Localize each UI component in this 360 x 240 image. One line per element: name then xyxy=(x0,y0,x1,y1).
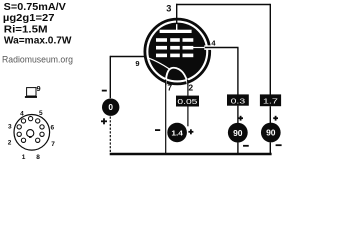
tube V1 inner electrode disc xyxy=(148,23,206,81)
battery Vf plus xyxy=(188,131,193,133)
svg-text:5: 5 xyxy=(39,110,43,117)
wire pin 4 horizontal xyxy=(205,47,239,49)
svg-text:4: 4 xyxy=(20,110,24,117)
wire top rail anode xyxy=(176,4,270,6)
wire anode column lower xyxy=(269,142,271,153)
battery Vg1 0 xyxy=(102,99,119,116)
socket pin left xyxy=(17,125,21,129)
pin 4 ring notch xyxy=(204,45,211,50)
socket pin lower right xyxy=(40,132,44,136)
wire g1 column lower dashed xyxy=(109,117,111,154)
meter Ig2 0.3 xyxy=(227,94,249,105)
wire anode column mid xyxy=(269,106,271,123)
anode bar xyxy=(160,30,192,33)
svg-text:0: 0 xyxy=(108,102,113,112)
socket pin upper right xyxy=(36,119,40,123)
svg-text:Wa=max.0.7W: Wa=max.0.7W xyxy=(4,36,72,47)
filament arch xyxy=(166,68,188,88)
svg-text:2: 2 xyxy=(8,140,12,147)
socket key symbol base xyxy=(25,96,37,98)
socket center hole xyxy=(27,130,34,137)
socket pin top center xyxy=(28,116,32,120)
svg-text:7: 7 xyxy=(167,82,172,92)
svg-text:90: 90 xyxy=(233,128,243,138)
wire pin3 drop xyxy=(176,4,178,25)
grid row g3 xyxy=(156,38,167,42)
tube V1 envelope ring xyxy=(145,19,210,84)
battery Vg1 plus xyxy=(101,120,107,122)
svg-text:0.05: 0.05 xyxy=(177,97,197,106)
battery Vg2 90 xyxy=(228,123,248,143)
socket pin bottom right xyxy=(36,138,40,142)
tube socket outline xyxy=(14,115,50,151)
wire pin 2 below meter xyxy=(187,106,189,126)
battery Vg2 minus xyxy=(243,145,249,147)
battery Va minus xyxy=(276,144,282,146)
filament right leg black xyxy=(186,80,189,86)
grid g1 connector to pin 9 xyxy=(149,58,170,69)
svg-text:µg2g1=27: µg2g1=27 xyxy=(3,13,55,24)
svg-text:8: 8 xyxy=(36,154,40,159)
socket key symbol square xyxy=(27,88,36,96)
wire pin 2 leg xyxy=(187,80,189,96)
meter If 0.05 xyxy=(176,96,199,107)
svg-text:Radiomuseum.org: Radiomuseum.org xyxy=(2,55,73,66)
socket pin lower left xyxy=(17,132,21,136)
grid row g2 xyxy=(156,46,167,50)
battery Vf 1.4 xyxy=(167,123,187,143)
svg-text:90: 90 xyxy=(266,128,276,138)
svg-text:6: 6 xyxy=(50,125,54,132)
svg-text:1.4: 1.4 xyxy=(171,128,183,137)
wire g2 column lower xyxy=(237,142,239,153)
socket pin right xyxy=(40,125,44,129)
svg-text:3: 3 xyxy=(166,4,171,14)
svg-text:0.3: 0.3 xyxy=(231,96,246,105)
svg-text:7: 7 xyxy=(51,141,55,148)
wire pin 9 horizontal xyxy=(110,56,146,58)
filament left leg black xyxy=(165,80,167,86)
svg-text:S=0.75mA/V: S=0.75mA/V xyxy=(4,2,67,13)
wire g2 column upper xyxy=(237,48,239,95)
svg-text:2: 2 xyxy=(188,82,193,92)
meter Ia 1.7 xyxy=(260,94,281,106)
svg-text:Ri=1.5M: Ri=1.5M xyxy=(4,25,48,36)
svg-text:9: 9 xyxy=(135,59,139,68)
wire anode column upper xyxy=(269,4,271,95)
battery Vg2 plus xyxy=(238,117,243,119)
socket pin bottom left xyxy=(21,138,25,142)
battery Vf minus xyxy=(155,129,160,131)
svg-text:1: 1 xyxy=(22,154,26,159)
pin 4 internal connector xyxy=(193,47,205,49)
socket pin upper left xyxy=(21,119,25,123)
battery Va 90 xyxy=(261,123,281,143)
wire g2 column mid xyxy=(237,106,239,123)
wire pin 7 leg xyxy=(165,80,167,154)
grid row g1 xyxy=(156,54,167,58)
battery Vg1 minus xyxy=(102,90,107,92)
svg-text:9: 9 xyxy=(36,84,40,93)
wire g1 column upper xyxy=(109,56,111,98)
pin 3 internal connector xyxy=(176,24,177,30)
bottom ground rail xyxy=(110,153,272,156)
svg-text:3: 3 xyxy=(8,123,12,130)
svg-text:1.7: 1.7 xyxy=(263,97,278,106)
battery Va plus xyxy=(273,117,278,119)
